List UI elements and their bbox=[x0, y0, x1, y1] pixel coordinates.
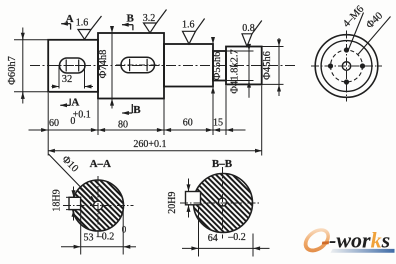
svg-text:Φ10: Φ10 bbox=[59, 154, 80, 175]
svg-text:64: 64 bbox=[208, 233, 218, 244]
svg-text:Φ45h6: Φ45h6 bbox=[262, 51, 273, 80]
svg-text:4–M6: 4–M6 bbox=[341, 4, 366, 30]
svg-text:32: 32 bbox=[62, 74, 73, 85]
svg-text:80: 80 bbox=[118, 120, 128, 131]
svg-text:3.2: 3.2 bbox=[143, 13, 156, 24]
svg-text:-works: -works bbox=[329, 228, 390, 253]
svg-text:60: 60 bbox=[183, 118, 193, 129]
svg-text:+0.1: +0.1 bbox=[73, 109, 91, 120]
svg-text:53: 53 bbox=[84, 233, 94, 244]
svg-text:60: 60 bbox=[49, 118, 59, 129]
svg-text:Φ41.8k2.7: Φ41.8k2.7 bbox=[229, 49, 240, 93]
svg-text:15: 15 bbox=[213, 118, 223, 129]
svg-text:18H9: 18H9 bbox=[51, 189, 62, 211]
svg-text:A–A: A–A bbox=[90, 158, 111, 170]
svg-text:–0.2: –0.2 bbox=[227, 232, 246, 243]
svg-text:B–B: B–B bbox=[212, 158, 233, 170]
svg-text:Φ60h7: Φ60h7 bbox=[7, 56, 18, 85]
svg-text:1.6: 1.6 bbox=[76, 18, 89, 29]
svg-text:Φ74h8: Φ74h8 bbox=[98, 50, 109, 79]
svg-text:20H9: 20H9 bbox=[167, 192, 178, 214]
svg-text:Φ40: Φ40 bbox=[364, 10, 385, 31]
svg-text:B: B bbox=[127, 12, 135, 24]
svg-text:A: A bbox=[66, 13, 74, 25]
svg-text:A: A bbox=[71, 97, 79, 109]
svg-text:1.6: 1.6 bbox=[182, 20, 195, 31]
svg-text:B: B bbox=[133, 104, 141, 116]
svg-text:–0.2: –0.2 bbox=[96, 232, 115, 243]
svg-text:0.8: 0.8 bbox=[242, 23, 255, 34]
svg-text:0: 0 bbox=[122, 225, 127, 235]
svg-text:260+0.1: 260+0.1 bbox=[133, 139, 166, 150]
svg-text:Φ55h6: Φ55h6 bbox=[212, 52, 223, 81]
